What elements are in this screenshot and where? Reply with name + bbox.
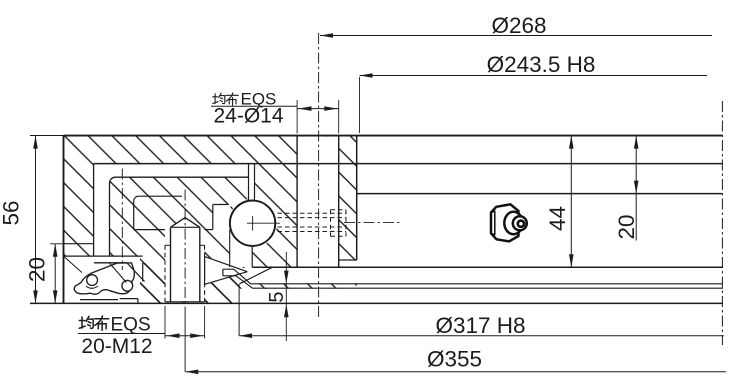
svg-text:Ø317 H8: Ø317 H8 [435, 313, 525, 338]
svg-text:56: 56 [0, 200, 24, 225]
svg-text:20: 20 [614, 214, 639, 239]
svg-text:Ø268: Ø268 [491, 13, 546, 38]
svg-text:Ø243.5 H8: Ø243.5 H8 [487, 52, 596, 77]
svg-text:44: 44 [545, 206, 570, 231]
svg-text:Ø355: Ø355 [427, 347, 482, 372]
svg-text:20: 20 [25, 257, 50, 282]
svg-text:EQS: EQS [111, 315, 151, 336]
svg-text:5: 5 [266, 291, 288, 302]
svg-text:20-M12: 20-M12 [81, 335, 152, 358]
svg-text:24-Ø14: 24-Ø14 [213, 105, 283, 128]
